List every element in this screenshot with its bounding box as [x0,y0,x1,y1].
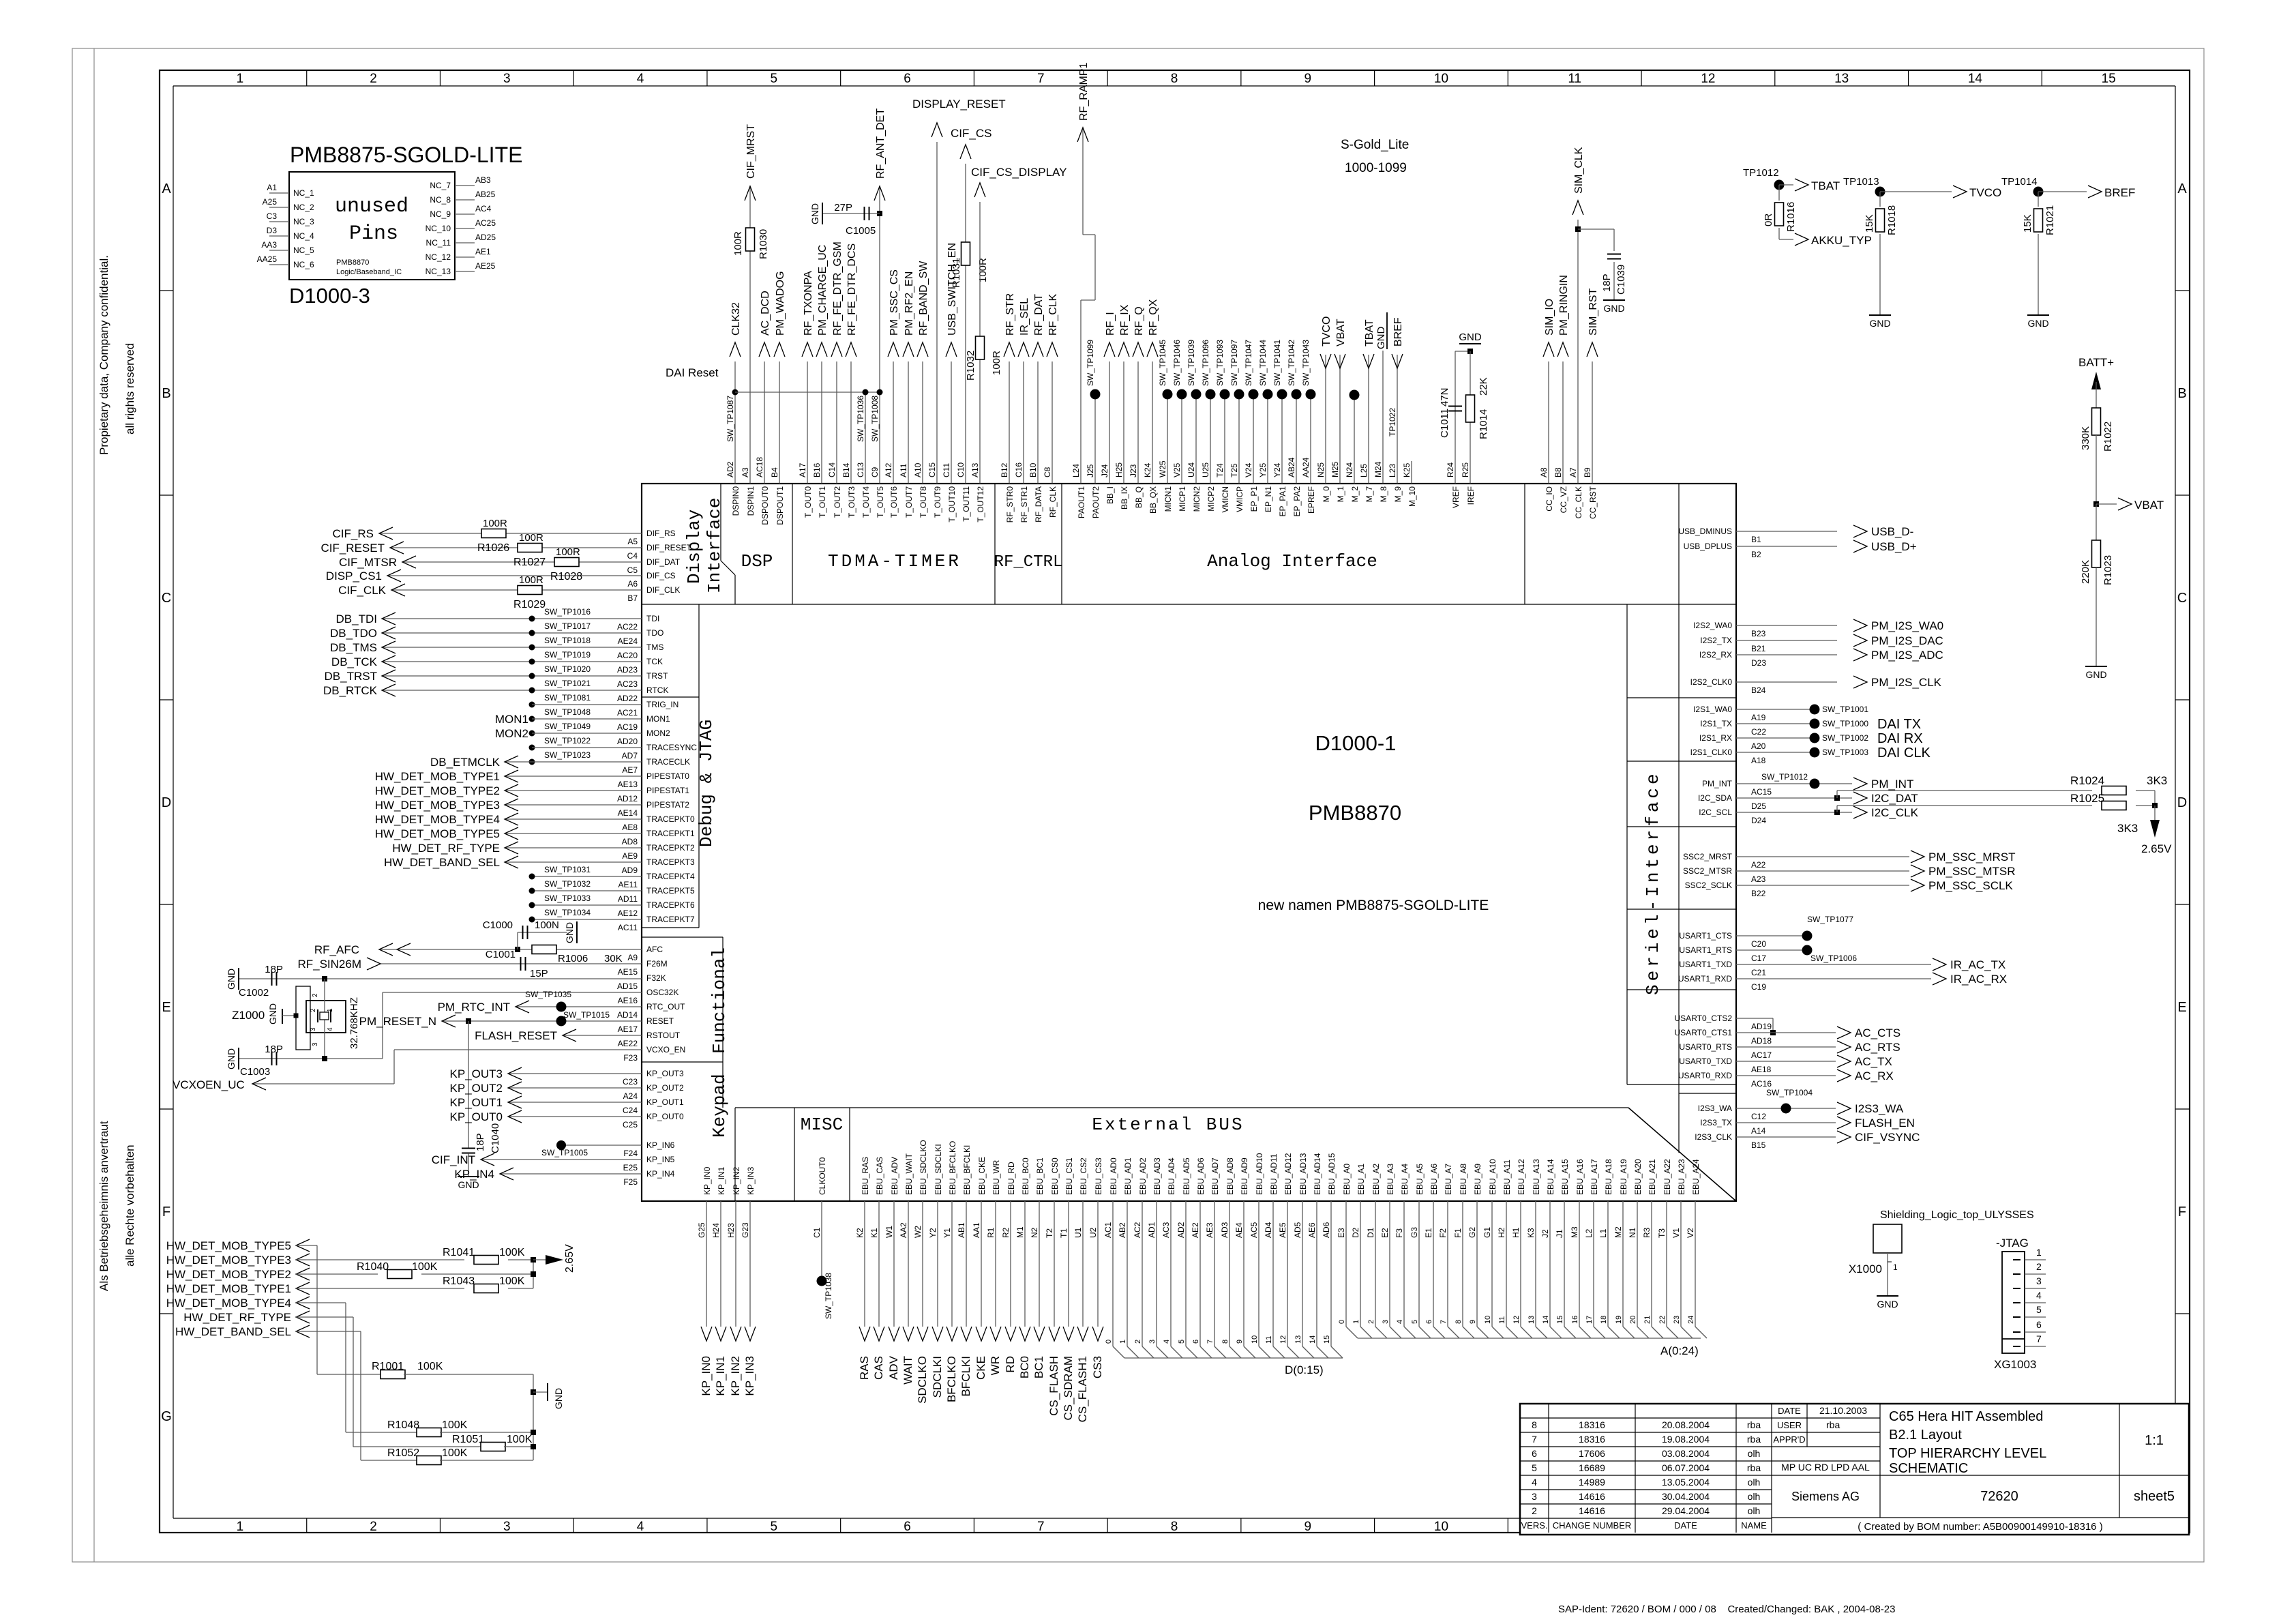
svg-text:EBU_AD11: EBU_AD11 [1269,1153,1279,1195]
svg-text:rba: rba [1747,1462,1761,1473]
svg-text:R1022: R1022 [2102,422,2114,452]
net HW_DET_BAND_SEL [505,861,642,863]
svg-text:H1: H1 [1511,1227,1521,1238]
svg-text:TRACEPKT4: TRACEPKT4 [646,872,695,881]
svg-text:WAIT: WAIT [901,1356,914,1385]
svg-text:100K: 100K [499,1247,525,1258]
svg-text:5: 5 [1532,1462,1537,1473]
svg-text:PIPESTAT2: PIPESTAT2 [646,800,689,810]
svg-text:18P: 18P [475,1133,486,1151]
svg-text:E2: E2 [1380,1228,1390,1238]
svg-text:C25: C25 [623,1120,638,1130]
svg-text:AE2: AE2 [1191,1222,1200,1238]
svg-text:R1: R1 [986,1227,996,1238]
svg-text:Debug & JTAG: Debug & JTAG [696,720,717,847]
svg-text:SW_TP1096: SW_TP1096 [1201,340,1210,386]
net CIF_CS_DISPLAY [979,202,981,484]
svg-text:EBU_A20: EBU_A20 [1633,1159,1643,1195]
svg-text:GND: GND [1459,331,1482,343]
ground pin M_8 [1382,351,1384,484]
svg-text:SIM_CLK: SIM_CLK [1573,147,1585,194]
svg-text:EBU_CKE: EBU_CKE [977,1157,987,1195]
svg-text:Y25: Y25 [1258,462,1268,477]
svg-text:C23: C23 [623,1077,638,1087]
svg-text:M2: M2 [1613,1226,1623,1238]
svg-text:CIF_INT: CIF_INT [432,1153,475,1166]
svg-text:U1: U1 [1073,1227,1083,1238]
svg-text:C1040: C1040 [490,1123,501,1153]
svg-text:MON2: MON2 [646,728,670,738]
test point SW_TP1042 [1296,394,1297,484]
net AKKU_TYP [1778,228,1780,239]
svg-text:B7: B7 [627,593,638,603]
svg-text:External BUS: External BUS [1092,1114,1244,1135]
svg-text:B16: B16 [812,462,822,477]
svg-text:KP_OUT3: KP_OUT3 [646,1069,684,1078]
svg-text:EP_PA2: EP_PA2 [1292,486,1302,517]
svg-text:Functional: Functional [709,947,730,1054]
net PM_RF2_EN [908,361,909,484]
svg-text:AE13: AE13 [618,780,638,789]
net SIM_RST [1592,361,1593,484]
svg-text:TMS: TMS [646,643,664,652]
svg-text:SW_TP1038: SW_TP1038 [824,1273,833,1319]
svg-text:AE7: AE7 [622,765,638,775]
svg-text:RF_IX: RF_IX [1119,304,1131,336]
svg-text:olh: olh [1748,1491,1761,1502]
svg-text:EBU_A6: EBU_A6 [1429,1164,1439,1195]
svg-text:I2S3_WA: I2S3_WA [1698,1104,1732,1113]
svg-text:USART0_TXD: USART0_TXD [1679,1057,1732,1066]
svg-text:GND: GND [226,1048,237,1069]
svg-text:BFCLKO: BFCLKO [945,1356,958,1402]
svg-text:TRACEPKT5: TRACEPKT5 [646,886,695,896]
svg-text:K2: K2 [855,1228,865,1238]
net RF_FE_DTR_DCS [850,361,852,484]
svg-text:PM_SSC_SCLK: PM_SSC_SCLK [1928,879,2013,892]
svg-text:A10: A10 [913,462,923,477]
svg-text:EBU_A5: EBU_A5 [1415,1164,1425,1195]
svg-text:PAOUT2: PAOUT2 [1091,486,1101,518]
svg-text:I2S2_TX: I2S2_TX [1700,636,1732,645]
svg-text:DISPLAY_RESET: DISPLAY_RESET [912,98,1006,110]
svg-text:BB_QX: BB_QX [1148,486,1158,514]
svg-text:HW_DET_MOB_TYPE4: HW_DET_MOB_TYPE4 [166,1297,291,1310]
svg-text:EBU_SDCLKO: EBU_SDCLKO [919,1140,928,1195]
resistor R1014 22K [1466,395,1475,422]
svg-text:7: 7 [1532,1434,1537,1445]
resistor R1023 220K [2092,540,2101,567]
svg-text:AB3: AB3 [475,175,491,185]
svg-text:AE9: AE9 [622,851,638,861]
svg-text:PM_INT: PM_INT [1702,779,1733,788]
net RAS [864,1201,865,1327]
net CIF_VSYNC [1736,1136,1836,1138]
svg-text:TRACEPKT1: TRACEPKT1 [646,829,695,838]
net BFCLKI [966,1201,967,1327]
resistor R1021 15K [2034,209,2043,232]
svg-text:T_OUT8: T_OUT8 [919,486,928,518]
svg-text:A: A [2177,181,2187,196]
svg-text:S-Gold_Lite: S-Gold_Lite [1341,138,1409,152]
svg-text:T_OUT3: T_OUT3 [847,486,856,518]
net AC_DCD [764,361,765,484]
svg-text:EBU_A2: EBU_A2 [1371,1164,1381,1195]
svg-text:TRACEPKT0: TRACEPKT0 [646,814,695,824]
svg-text:USB_SWITCH_EN: USB_SWITCH_EN [946,243,958,336]
svg-text:C21: C21 [1751,968,1766,977]
test point SW_TP1002 [1736,737,1815,739]
svg-text:D: D [162,795,171,810]
svg-text:R1021: R1021 [2044,205,2056,235]
svg-text:M_7: M_7 [1365,486,1374,503]
svg-text:W25: W25 [1158,460,1167,477]
svg-text:8: 8 [1455,1320,1463,1324]
svg-text:EBU_CS1: EBU_CS1 [1064,1157,1074,1195]
svg-text:C15: C15 [927,462,937,477]
svg-text:2: 2 [1134,1340,1142,1344]
svg-text:4: 4 [637,72,644,86]
svg-text:GND: GND [809,203,820,224]
svg-text:HW_DET_BAND_SEL: HW_DET_BAND_SEL [384,856,500,869]
net AC_TX [1736,1061,1836,1062]
svg-text:PM_I2S_DAC: PM_I2S_DAC [1871,634,1943,647]
svg-text:EBU_AD12: EBU_AD12 [1283,1153,1293,1195]
svg-text:Pins: Pins [349,222,398,246]
net RD [1010,1201,1011,1327]
net TBAT [1779,184,1793,186]
svg-text:C11: C11 [942,463,951,477]
svg-text:100N: 100N [535,919,559,931]
svg-text:DIF_RS: DIF_RS [646,529,676,538]
net KP_OUT0 [508,1116,642,1117]
svg-text:A12: A12 [884,462,893,477]
svg-text:GND: GND [1603,303,1624,314]
svg-text:3: 3 [1532,1491,1537,1502]
ground at R1023 [2096,567,2097,666]
svg-text:A20: A20 [1751,741,1766,751]
svg-text:DSPOUT0: DSPOUT0 [760,486,770,525]
svg-text:T_OUT2: T_OUT2 [833,486,842,518]
svg-text:IR_SEL: IR_SEL [1019,298,1030,336]
svg-text:AE22: AE22 [618,1039,638,1048]
svg-text:F: F [2178,1205,2186,1220]
svg-text:EBU_ADV: EBU_ADV [890,1157,899,1195]
svg-text:7: 7 [1206,1340,1214,1344]
svg-text:M24: M24 [1373,461,1383,477]
svg-text:SW_TP1021: SW_TP1021 [544,679,591,688]
svg-text:F26M: F26M [646,959,668,969]
svg-text:FLASH_EN: FLASH_EN [1855,1117,1915,1130]
svg-text:SW_TP1031: SW_TP1031 [544,865,591,874]
svg-text:KP_IN2: KP_IN2 [729,1356,742,1396]
svg-text:14616: 14616 [1579,1505,1605,1516]
svg-text:E25: E25 [623,1163,638,1172]
svg-text:AE24: AE24 [618,636,638,646]
svg-text:19: 19 [1615,1316,1623,1324]
capacitor C1001 15P [520,957,522,971]
svg-text:C17: C17 [1751,954,1766,963]
net DB_TRST / test point SW_TP1020 [382,675,642,677]
svg-text:DISP_CS1: DISP_CS1 [326,570,382,582]
svg-text:100K: 100K [442,1447,468,1459]
resistor R1022 330K [2092,408,2101,435]
capacitor C1003 18P [239,1058,383,1059]
svg-text:G23: G23 [741,1222,750,1238]
svg-text:8: 8 [1171,1520,1178,1534]
net PM_I2S_ADC [1736,654,1837,655]
svg-text:A(0:24): A(0:24) [1660,1344,1699,1357]
svg-text:AC_TX: AC_TX [1855,1055,1892,1068]
svg-text:RF_Q: RF_Q [1133,306,1145,336]
svg-text:T_OUT12: T_OUT12 [976,486,985,522]
svg-text:C3: C3 [267,211,278,221]
svg-text:AC25: AC25 [475,218,496,228]
svg-text:KP_IN2: KP_IN2 [732,1166,741,1195]
svg-text:alle Rechte vorbehalten: alle Rechte vorbehalten [123,1145,136,1267]
svg-text:EBU_A15: EBU_A15 [1560,1159,1570,1195]
svg-text:15: 15 [1556,1316,1564,1324]
svg-text:F32K: F32K [646,973,666,983]
svg-text:BATT+: BATT+ [2078,356,2114,369]
svg-text:EBU_A21: EBU_A21 [1648,1159,1657,1195]
svg-text:GND: GND [553,1388,564,1409]
svg-text:R2: R2 [1001,1227,1011,1238]
svg-text:I2C_DAT: I2C_DAT [1871,792,1918,805]
svg-text:5: 5 [771,1520,778,1534]
svg-text:RD: RD [1004,1356,1017,1373]
svg-text:DB_TCK: DB_TCK [331,655,378,668]
svg-text:6: 6 [2036,1319,2042,1330]
net PM_RTC_INT / test point SW_TP1035 [516,1006,642,1007]
svg-text:DIF_CLK: DIF_CLK [646,585,680,595]
capacitor C1000 100N [515,947,520,952]
svg-text:olh: olh [1748,1505,1761,1516]
svg-text:12: 12 [1279,1335,1287,1344]
svg-text:SDCLKO: SDCLKO [916,1356,929,1404]
net RF_STR [1009,361,1010,484]
junction DAI Reset on DSPIN0 [732,389,739,396]
svg-text:100R: 100R [556,546,580,558]
net CS_FLASH [1054,1201,1055,1327]
svg-text:KP_IN6: KP_IN6 [646,1140,675,1150]
net DB_TMS / test point SW_TP1018 [382,647,642,648]
svg-text:4: 4 [1532,1477,1537,1488]
svg-text:AKKU_TYP: AKKU_TYP [1811,234,1872,247]
svg-text:Seriel-Interface: Seriel-Interface [1643,770,1663,995]
svg-text:AE18: AE18 [1751,1065,1772,1074]
svg-text:SDCLKI: SDCLKI [931,1356,944,1398]
svg-text:4: 4 [1396,1320,1404,1324]
svg-text:14989: 14989 [1579,1477,1605,1488]
ground at C1000 [576,921,578,943]
svg-text:19.08.2004: 19.08.2004 [1662,1434,1710,1445]
svg-text:C1: C1 [812,1227,822,1238]
svg-text:R1029: R1029 [513,599,546,610]
svg-text:R1040: R1040 [357,1261,389,1273]
net DB_TCK / test point SW_TP1019 [382,661,642,662]
svg-text:TRACEPKT3: TRACEPKT3 [646,857,695,867]
svg-text:A6: A6 [627,579,638,589]
svg-text:TRACECLK: TRACECLK [646,757,690,767]
svg-text:7: 7 [1037,72,1045,86]
svg-text:SW_TP1001: SW_TP1001 [1822,705,1868,714]
svg-text:AC_RTS: AC_RTS [1855,1041,1900,1054]
svg-text:C10: C10 [956,462,966,477]
svg-text:SW_TP1093: SW_TP1093 [1215,340,1225,386]
svg-text:X1000: X1000 [1849,1263,1882,1275]
svg-text:KP_OUT0: KP_OUT0 [450,1110,503,1123]
svg-text:K1: K1 [869,1228,879,1238]
svg-text:RF_STR0: RF_STR0 [1005,486,1015,523]
svg-text:K24: K24 [1143,462,1152,477]
svg-text:T_OUT4: T_OUT4 [861,486,871,518]
svg-text:EBU_BFCLKO: EBU_BFCLKO [948,1141,957,1195]
net CIF_MRST wire [749,186,751,484]
svg-text:47N: 47N [1439,387,1450,407]
test point SW_TP1096 [1210,394,1211,484]
svg-text:AA1: AA1 [972,1222,981,1238]
svg-text:1: 1 [237,1520,244,1534]
svg-text:Y1: Y1 [942,1228,952,1238]
svg-text:NC_12: NC_12 [426,252,451,262]
svg-text:T3: T3 [1657,1228,1667,1238]
svg-text:MON2: MON2 [495,727,528,740]
svg-text:EBU_SDCLKI: EBU_SDCLKI [934,1144,943,1195]
svg-text:EBU_AD9: EBU_AD9 [1240,1157,1249,1195]
svg-text:B9: B9 [1583,467,1592,477]
svg-text:D(0:15): D(0:15) [1285,1363,1324,1376]
svg-text:C16: C16 [1014,462,1024,477]
svg-text:AB25: AB25 [475,190,496,199]
svg-text:4: 4 [1163,1340,1171,1344]
svg-text:PM_I2S_WA0: PM_I2S_WA0 [1871,619,1943,632]
resistor R1016 0R [1775,203,1784,226]
svg-text:M_8: M_8 [1379,486,1388,503]
svg-text:G1: G1 [1482,1227,1492,1238]
svg-text:3: 3 [503,72,511,86]
svg-text:EP_PA1: EP_PA1 [1278,486,1287,517]
svg-text:AC3: AC3 [1161,1222,1171,1238]
net DISP_CS1 [387,575,642,576]
svg-text:I2S3_TX: I2S3_TX [1700,1118,1732,1127]
svg-text:T2: T2 [1045,1228,1054,1238]
svg-text:D: D [2177,795,2187,810]
svg-text:3: 3 [310,1027,317,1031]
svg-text:TDO: TDO [646,628,664,638]
net RF_I [1109,361,1110,484]
svg-text:J25: J25 [1086,464,1095,477]
svg-text:CIF_CS: CIF_CS [951,127,992,140]
svg-text:C1039: C1039 [1615,265,1627,295]
svg-text:R3: R3 [1642,1227,1652,1238]
svg-text:AE3: AE3 [1205,1222,1214,1238]
svg-text:rba: rba [1747,1434,1761,1445]
svg-text:TP1012: TP1012 [1743,167,1779,179]
svg-text:VREF: VREF [1451,486,1461,508]
svg-text:DIF_CS: DIF_CS [646,571,676,580]
svg-text:Als Betriebsgeheimnis anvertra: Als Betriebsgeheimnis anvertraut [98,1121,110,1291]
net CS_SDRAM [1068,1201,1069,1327]
net WAIT [908,1201,909,1327]
svg-text:1: 1 [2036,1247,2042,1258]
net I2C_DAT [1736,797,1852,799]
svg-text:KP_OUT0: KP_OUT0 [646,1112,684,1121]
svg-text:15P: 15P [530,968,548,979]
svg-text:A13: A13 [970,462,980,477]
net PM_SSC_MRST [1736,856,1909,857]
svg-text:R1018: R1018 [1886,205,1898,235]
test point SW_TP1049 [529,730,535,737]
svg-text:C1000: C1000 [483,919,513,931]
svg-text:B8: B8 [1553,467,1563,477]
svg-text:16689: 16689 [1579,1462,1605,1473]
svg-text:NC_10: NC_10 [426,224,451,233]
svg-text:SAP-Ident: 72620 / BOM / 000 /: SAP-Ident: 72620 / BOM / 000 / 08 Create… [1558,1604,1895,1615]
svg-text:A7: A7 [1568,467,1578,477]
svg-text:9: 9 [1236,1340,1244,1344]
svg-text:B15: B15 [1751,1140,1766,1150]
svg-text:USART0_RXD: USART0_RXD [1678,1071,1732,1080]
svg-text:5: 5 [1178,1340,1186,1344]
bus D(0:15) [1124,1357,1343,1359]
net PM_CHARGE_UC [821,361,822,484]
net TVCO [1325,355,1326,484]
svg-text:EBU_AD6: EBU_AD6 [1196,1157,1206,1195]
svg-text:PMB8870: PMB8870 [1309,801,1401,825]
svg-text:C1002: C1002 [239,987,269,999]
svg-text:NC_7: NC_7 [430,181,451,190]
svg-text:DSPOUT1: DSPOUT1 [775,486,785,525]
svg-text:A17: A17 [798,462,807,477]
svg-text:unused: unused [335,195,408,218]
svg-text:V2: V2 [1686,1228,1695,1238]
svg-text:SW_TP1002: SW_TP1002 [1822,733,1868,743]
svg-text:PIPESTAT0: PIPESTAT0 [646,771,689,781]
svg-text:F1: F1 [1453,1228,1463,1238]
svg-text:M_0: M_0 [1322,486,1331,503]
net DB_TDI / test point SW_TP1016 [382,618,642,619]
svg-text:B4: B4 [770,467,779,477]
svg-text:DAI CLK: DAI CLK [1877,745,1930,761]
svg-text:AE11: AE11 [618,880,638,889]
svg-text:TDI: TDI [646,614,659,623]
svg-text:PM_RESET_N: PM_RESET_N [359,1015,436,1028]
svg-text:DSPIN0: DSPIN0 [731,486,741,516]
svg-text:14: 14 [1542,1316,1550,1324]
net KP_OUT1 [508,1102,642,1103]
svg-text:J24: J24 [1100,464,1109,477]
svg-text:USART0_CTS1: USART0_CTS1 [1675,1028,1733,1037]
svg-text:AD19: AD19 [1751,1022,1772,1031]
svg-text:SW_TP1018: SW_TP1018 [544,636,591,645]
svg-text:SW_TP1045: SW_TP1045 [1158,340,1167,386]
svg-text:I2S1_CLK0: I2S1_CLK0 [1690,748,1733,757]
test point SW_TP1001 [1736,709,1815,710]
svg-text:R1016: R1016 [1785,202,1797,232]
svg-text:RTC_OUT: RTC_OUT [646,1002,685,1012]
svg-text:8: 8 [1171,72,1178,86]
svg-text:KP_IN4: KP_IN4 [646,1169,675,1179]
svg-text:HW_DET_RF_TYPE: HW_DET_RF_TYPE [183,1311,291,1324]
svg-text:SSC2_SCLK: SSC2_SCLK [1685,881,1732,890]
svg-text:Keypad: Keypad [709,1074,730,1138]
svg-text:PM_SSC_CS: PM_SSC_CS [889,269,900,336]
svg-text:AE17: AE17 [618,1024,638,1034]
test point SW_TP1033 [532,904,642,906]
svg-text:CC_RST: CC_RST [1588,486,1598,519]
svg-text:A24: A24 [623,1091,638,1101]
